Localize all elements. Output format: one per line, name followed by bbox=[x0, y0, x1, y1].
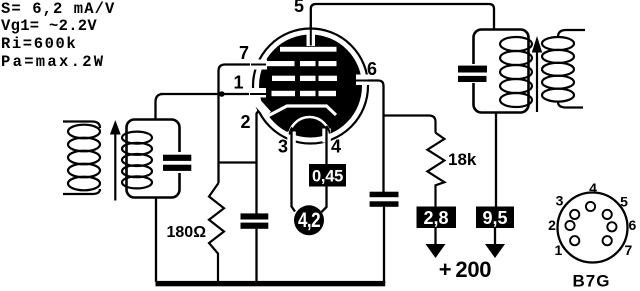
resistor 18k screen feed bbox=[427, 133, 444, 207]
svg-text:0,45: 0,45 bbox=[312, 168, 343, 186]
wire cathode pin2 down bbox=[257, 110, 260, 214]
output transformer tuned loop wire bbox=[474, 30, 529, 113]
svg-text:3: 3 bbox=[278, 137, 288, 157]
svg-text:1: 1 bbox=[555, 242, 563, 258]
svg-text:7: 7 bbox=[239, 43, 249, 63]
svg-text:1: 1 bbox=[233, 73, 243, 93]
left tuned circuit capacitor bbox=[163, 152, 191, 173]
cathode white line bbox=[264, 106, 336, 118]
svg-text:180Ω: 180Ω bbox=[167, 224, 207, 241]
svg-text:3: 3 bbox=[556, 193, 564, 209]
B7G socket pin 7 bbox=[603, 236, 612, 245]
junction dot g1/g3 node bbox=[219, 91, 225, 97]
output transformer capacitor bbox=[458, 64, 487, 83]
svg-text:4,2: 4,2 bbox=[298, 209, 320, 232]
wire pin3 heater to meter circle bbox=[292, 129, 296, 212]
wire tuned circuit bottom to ground bus bbox=[155, 198, 157, 283]
B7G socket pin 4 bbox=[586, 202, 595, 211]
B7G socket pin 5 bbox=[603, 210, 612, 219]
pentode tube inner disc bbox=[259, 35, 362, 138]
arrow to +200 right bbox=[485, 228, 505, 258]
capacitor screen bypass bbox=[370, 192, 399, 207]
value box 9,5 bbox=[476, 207, 514, 229]
svg-text:18k: 18k bbox=[448, 150, 477, 169]
pin1 lead line bbox=[250, 93, 267, 95]
left tuned circuit secondary coil bbox=[122, 132, 152, 189]
pin7 lead line bbox=[251, 64, 266, 66]
left IF transformer primary coil bbox=[63, 122, 100, 195]
svg-text:B7G: B7G bbox=[573, 272, 611, 291]
left transformer coupling arrow bbox=[110, 120, 121, 201]
heater circle white arc bbox=[289, 117, 330, 158]
B7G socket pin 6 bbox=[607, 222, 616, 231]
pin channels white gaps bbox=[249, 30, 371, 143]
wire tuned circuit top to grid g1 node bbox=[156, 94, 164, 120]
output transformer secondary coil bbox=[542, 30, 585, 108]
svg-text:5: 5 bbox=[294, 0, 304, 16]
svg-text:5: 5 bbox=[620, 194, 628, 210]
heater ring arc left bbox=[290, 128, 293, 135]
svg-text:4: 4 bbox=[331, 137, 341, 157]
svg-text:7: 7 bbox=[625, 242, 633, 258]
B7G socket pin 3 bbox=[570, 210, 579, 219]
svg-text:4: 4 bbox=[589, 180, 597, 196]
B7G socket pin 2 bbox=[565, 221, 574, 230]
wire pin4 heater down bbox=[322, 126, 327, 212]
svg-text:+ 200: + 200 bbox=[439, 257, 492, 282]
grid g2 dashes row2 bbox=[272, 76, 337, 81]
svg-text:S= 6,2 mA/V: S= 6,2 mA/V bbox=[1, 0, 115, 18]
ground bus bbox=[156, 281, 386, 286]
anode plate white bar bbox=[280, 47, 337, 52]
svg-text:Vg1= ~2.2V: Vg1= ~2.2V bbox=[1, 17, 97, 35]
output transformer primary coil bbox=[500, 37, 532, 107]
wire output transformer bottom to 9,5 bbox=[495, 112, 497, 207]
value box 0,45 bbox=[309, 164, 346, 187]
wire screen capacitor to ground bus bbox=[383, 207, 385, 283]
B7G socket circle bbox=[558, 193, 628, 263]
svg-text:Pa=max.2W: Pa=max.2W bbox=[1, 53, 105, 71]
svg-text:2: 2 bbox=[240, 112, 250, 132]
output transformer coupling arrow bbox=[532, 36, 542, 112]
capacitor cathode bypass bbox=[241, 213, 269, 228]
wire anode pin5 to output transformer top bbox=[311, 4, 494, 30]
wire pin7 g3 to cathode node bbox=[219, 65, 267, 184]
left tuned circuit loop wire bbox=[127, 120, 180, 198]
pin5 lead line bbox=[310, 24, 312, 46]
wire pin6 screen grid bbox=[368, 81, 384, 193]
heater ring arc right bbox=[326, 126, 330, 134]
svg-text:Ri=600k: Ri=600k bbox=[1, 35, 77, 53]
svg-text:6: 6 bbox=[629, 217, 637, 233]
wire cathode capacitor to ground bus bbox=[255, 229, 257, 282]
value box 2,8 bbox=[417, 207, 457, 229]
arrow to +200 left bbox=[426, 228, 446, 258]
resistor 180 ohm cathode bbox=[209, 183, 224, 283]
B7G socket pin 1 bbox=[570, 236, 579, 245]
wire g1 horizontal to tube pin1 bbox=[160, 93, 266, 95]
pentode tube outer envelope bbox=[253, 29, 368, 144]
wire cathode node horizontal bbox=[219, 161, 257, 163]
pin6 lead line bbox=[337, 80, 372, 82]
svg-text:9,5: 9,5 bbox=[482, 208, 507, 228]
meter circle 4,2 bbox=[294, 205, 324, 235]
wire screen to 18k resistor bbox=[384, 116, 436, 133]
svg-text:2: 2 bbox=[548, 217, 556, 233]
grid g1 dashes row3 bbox=[272, 91, 337, 96]
svg-text:2,8: 2,8 bbox=[423, 208, 448, 228]
svg-text:6: 6 bbox=[367, 59, 377, 79]
grid g3 dashes row1 bbox=[265, 61, 337, 66]
